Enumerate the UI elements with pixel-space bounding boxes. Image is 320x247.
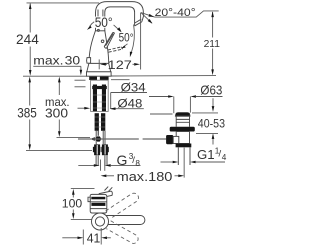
label 50 deg first <box>94 17 113 28</box>
spout outlet face <box>135 22 142 26</box>
lever solid <box>104 32 114 48</box>
385 bottom extension line <box>26 150 92 152</box>
svg-text:300: 300 <box>45 106 68 121</box>
dimension 40-53 <box>212 98 214 106</box>
svg-text:244: 244 <box>16 32 39 47</box>
arrow on upper angle line <box>149 14 154 17</box>
arrow max300 bottom <box>58 131 61 137</box>
arrow 211 bottom <box>211 69 214 75</box>
deck section line right of shank <box>111 79 130 81</box>
G3/8 connector nut left <box>94 144 100 155</box>
cartridge circle detail <box>101 40 104 43</box>
connector tails below nuts <box>96 155 107 166</box>
svg-text:100: 100 <box>62 198 82 211</box>
arrow 385 bottom <box>28 144 31 150</box>
G1 1/4 dim arrows <box>161 161 174 163</box>
100 dim line <box>72 193 74 198</box>
spout tip angle leader upper <box>141 13 155 18</box>
arrow 211 top <box>211 11 214 17</box>
d63 dim arrows <box>149 96 169 98</box>
arrow max.30 down <box>80 70 83 76</box>
dimension max.180 <box>101 175 107 178</box>
svg-text:50°: 50° <box>119 31 134 45</box>
pop-up rod vertical <box>97 131 99 136</box>
flange neck <box>175 116 190 127</box>
svg-text:41: 41 <box>87 231 101 246</box>
svg-text:8: 8 <box>135 159 140 168</box>
spout solid stadium <box>103 216 145 225</box>
svg-text:max. 30: max. 30 <box>33 54 80 68</box>
body side notch <box>88 197 90 201</box>
rod clamp knob <box>166 135 173 144</box>
svg-text:max.180: max.180 <box>117 170 173 184</box>
arrow max300 top <box>58 77 61 83</box>
spout dashed upper <box>106 193 139 218</box>
lever base dark band <box>91 197 105 200</box>
aerator lines <box>135 19 141 23</box>
faucet body left edge <box>89 31 96 64</box>
hose left braided <box>95 113 99 131</box>
d48 outside arrow left of shank <box>78 107 86 109</box>
base seal dark band <box>89 77 97 80</box>
G3/8 connector nut right <box>102 144 108 155</box>
clamp block <box>173 136 179 143</box>
faucet base trapezoid <box>87 63 111 71</box>
40-53 top extension line / basin right <box>192 112 218 114</box>
threaded shank outline <box>91 80 109 111</box>
drain body <box>176 132 189 144</box>
deck section lines left of shank <box>75 79 86 81</box>
swivel circle outer <box>92 213 109 230</box>
svg-text:127: 127 <box>108 58 132 72</box>
svg-text:385: 385 <box>17 106 37 121</box>
top view lever hatch ticks <box>105 187 113 192</box>
basin line left of flange <box>150 113 173 115</box>
shank thread bars <box>93 85 97 112</box>
G3/8 leader arrows <box>78 164 94 166</box>
40-53 bottom extension line <box>196 132 218 134</box>
50deg-2 swing arc with arrow <box>131 25 134 54</box>
d63 extension line left <box>173 97 175 114</box>
arrow 244 bottom <box>29 70 32 76</box>
hose right braided <box>101 113 105 131</box>
arrow d48 leader left <box>110 107 116 110</box>
pop-up horizontal rod <box>78 138 139 140</box>
max.30 underline <box>33 65 81 67</box>
faucet body right edge <box>105 31 109 64</box>
shank top locknut <box>92 86 107 89</box>
svg-text:4: 4 <box>222 153 227 162</box>
max300 bottom extension line <box>57 137 91 139</box>
dimension 244 top extension line <box>27 2 100 4</box>
swivel circle inner <box>95 217 104 226</box>
body dark band <box>91 203 105 206</box>
drain dome cap <box>175 113 190 117</box>
arrow 385 top <box>28 77 31 83</box>
50deg-1 right line and arrow <box>114 25 121 31</box>
pop-up rod ball joint <box>95 136 101 141</box>
body inner line <box>90 201 107 203</box>
50deg-2 leader to dashed lever <box>124 44 128 47</box>
spout tip angle lower line <box>141 13 152 24</box>
neck joint inner lines <box>98 10 103 17</box>
hose tails to nuts <box>95 131 97 145</box>
tailpipe <box>177 147 179 165</box>
dimension 385 vertical line <box>29 81 31 106</box>
spout dashed lower <box>106 221 138 244</box>
arrow on lower angle line <box>148 19 153 24</box>
top view body <box>90 194 107 213</box>
arrow 244 top <box>29 3 32 9</box>
tailpipe centerline <box>183 148 185 178</box>
svg-text:40-53: 40-53 <box>198 117 226 131</box>
svg-text:50°: 50° <box>95 15 113 30</box>
counter surface line left <box>23 75 87 77</box>
d63 extension line right <box>189 97 191 113</box>
100 bottom extension line <box>71 218 103 220</box>
faucet spout inner outline <box>105 7 135 31</box>
max.30 leader drop <box>80 66 82 70</box>
faucet base plinth <box>87 72 112 76</box>
dimension 211 vertical <box>212 12 214 38</box>
lever open dashed <box>108 47 122 52</box>
drain locknut dark band <box>176 144 192 148</box>
top view lever bar <box>99 191 112 198</box>
50deg-1 left arc and arrow <box>90 22 94 26</box>
svg-text:211: 211 <box>204 39 221 50</box>
100 top extension line <box>71 187 95 189</box>
svg-text:G1: G1 <box>197 147 215 162</box>
20-40 underline and kink to 211 ext <box>155 11 219 17</box>
drain rubber gasket <box>170 127 195 132</box>
dimension 244 vertical line <box>29 3 31 32</box>
dimension 127 <box>98 59 100 69</box>
dimension max.300 vertical line <box>58 81 60 96</box>
dimension 41 <box>82 230 84 245</box>
counter surface line right <box>111 75 216 77</box>
svg-text:Ø63: Ø63 <box>200 83 222 98</box>
faucet spout outer outline <box>96 2 144 31</box>
pop-up rod knob at body left <box>87 58 91 64</box>
svg-text:G: G <box>117 152 128 168</box>
